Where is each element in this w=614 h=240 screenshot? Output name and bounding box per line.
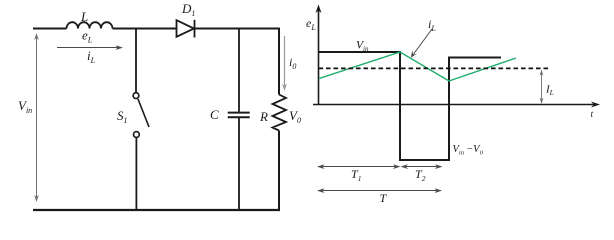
svg-text:S1: S1 bbox=[117, 108, 128, 125]
wire switch branch lower bbox=[135, 137, 137, 210]
source arrow Vin bbox=[34, 33, 39, 202]
svg-text:C: C bbox=[210, 107, 219, 122]
arrow IL bbox=[540, 69, 544, 104]
dimension T1 bbox=[317, 164, 401, 169]
current arrow iL bbox=[57, 45, 123, 50]
waveform eL square wave bbox=[319, 52, 502, 160]
leader arrow to iL curve bbox=[411, 29, 432, 58]
svg-text:iL: iL bbox=[428, 17, 436, 33]
wire switch branch upper bbox=[135, 29, 137, 93]
wire top-left segment bbox=[33, 28, 67, 30]
svg-text:L: L bbox=[80, 9, 88, 24]
capacitor C bbox=[228, 113, 250, 118]
wire right branch upper bbox=[278, 28, 280, 95]
dimension T2 bbox=[401, 164, 443, 169]
svg-text:D1: D1 bbox=[181, 1, 195, 18]
resistor R bbox=[273, 95, 287, 131]
diode D1 bbox=[177, 20, 195, 38]
inductor L bbox=[67, 22, 113, 28]
svg-text:T1: T1 bbox=[351, 167, 361, 183]
svg-text:Vin: Vin bbox=[356, 40, 369, 54]
dashed average line bbox=[319, 67, 550, 69]
svg-text:eL: eL bbox=[82, 28, 93, 45]
x-axis t bbox=[313, 102, 600, 108]
svg-text:IL: IL bbox=[545, 84, 554, 98]
y-axis eL bbox=[316, 5, 322, 106]
svg-text:Vin: Vin bbox=[18, 98, 32, 115]
svg-text:Vin −V0: Vin −V0 bbox=[453, 144, 484, 157]
waveform iL green bbox=[319, 52, 516, 81]
svg-text:T2: T2 bbox=[415, 167, 426, 183]
wire inductor to diode bbox=[113, 28, 177, 30]
wire right branch lower bbox=[278, 131, 280, 211]
svg-text:t: t bbox=[591, 110, 594, 120]
svg-text:i0: i0 bbox=[289, 55, 296, 71]
wire capacitor branch lower bbox=[238, 118, 240, 210]
wire capacitor branch upper bbox=[238, 29, 240, 112]
wire bottom bbox=[33, 209, 280, 211]
switch S1 bbox=[133, 93, 149, 138]
current arrow i0 bbox=[282, 36, 287, 91]
svg-text:R: R bbox=[259, 109, 268, 124]
wire diode to right corner bbox=[195, 28, 279, 30]
dimension T bbox=[317, 188, 442, 193]
svg-text:T: T bbox=[380, 191, 388, 205]
svg-text:V0: V0 bbox=[289, 108, 301, 125]
svg-text:iL: iL bbox=[87, 48, 96, 65]
svg-text:eL: eL bbox=[306, 16, 316, 32]
